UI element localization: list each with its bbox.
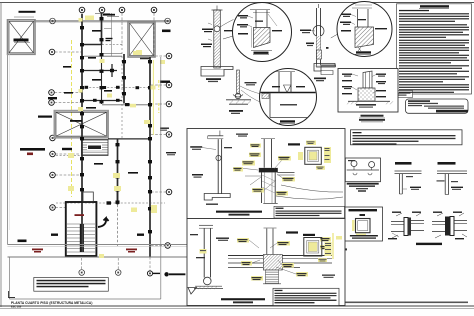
yellow highlight smudges [68, 16, 165, 259]
middle column details [201, 6, 261, 115]
column markers on walls [80, 17, 152, 233]
nota 1 box [351, 130, 463, 145]
proyecto title box [406, 99, 469, 113]
box upper: detalle de columna en vigas existentes [187, 129, 345, 219]
horizontal y155.7 [56, 155, 82, 157]
left grid leaders [55, 52, 83, 208]
planta alzado T [437, 162, 468, 195]
detail circle 2 [331, 2, 392, 57]
corner L mark [9, 291, 16, 298]
column elevation between circles [300, 4, 336, 67]
bottom grid bubbles [79, 270, 85, 276]
left grid bubbles [49, 49, 56, 210]
X-box void top-right [128, 22, 155, 58]
detail base-left of circle D [226, 70, 261, 114]
detail circle 3 (large, lower) [260, 69, 317, 126]
left wall vertical [7, 54, 9, 245]
alero corner step detail [314, 50, 335, 81]
box lower [187, 219, 345, 306]
box1 nota strip [274, 206, 345, 218]
beam splice detail 2 [432, 212, 467, 240]
top grid leader lines [82, 13, 154, 140]
right column: notes, boxes, tables [314, 4, 472, 303]
small interior annotation marks [63, 30, 138, 174]
leader curves to weld box [276, 185, 343, 199]
svg-text:PLANTA CUARTO PISO (ESTRUCTURA: PLANTA CUARTO PISO (ESTRUCTURA METALICA) [11, 301, 93, 305]
horizontal y203 [56, 202, 165, 204]
empalme caption [416, 243, 442, 245]
red beam labels in band [32, 249, 137, 253]
X-box void middle [55, 111, 109, 138]
detail circle 1 [223, 3, 292, 62]
box1 bottom title [216, 211, 262, 216]
wall E (x148.6) [149, 57, 151, 257]
nota box inside box2 bottom-right [273, 288, 339, 305]
detail A-A column elevation [201, 6, 234, 83]
svg-text:ESC 1/50: ESC 1/50 [11, 306, 22, 309]
bottom-right margin text [320, 302, 468, 304]
corridor band [8, 245, 188, 258]
horizontal wall y100 [82, 100, 122, 102]
black bars annotations [18, 116, 145, 243]
wall C (x102) upper [101, 13, 103, 45]
right grid bubbles [165, 53, 172, 248]
wall D (x117.5) lower [117, 139, 119, 205]
beam-column joint inside box2 [228, 228, 332, 284]
PLAN (left) [8, 7, 188, 308]
plan bottom note box [34, 278, 109, 292]
curved arrow right of stair [98, 218, 109, 227]
detalle 4 square (box2) [303, 233, 342, 278]
column elevation inside box1 [190, 131, 232, 205]
grid bubble left-top [50, 18, 56, 24]
weld symbol box [345, 158, 380, 192]
stair box [66, 202, 97, 256]
detalle 4 square (box1) [288, 141, 331, 170]
footing detail box [338, 69, 398, 113]
box2 bottom title [221, 298, 265, 303]
cuadro de columnas box [344, 207, 383, 241]
X-box void top-left [8, 20, 36, 55]
ley mark [340, 248, 347, 250]
yellow grid highlight line [71, 40, 73, 197]
beam splice detail 1 [388, 212, 424, 240]
horizontal wall y44 [82, 44, 102, 46]
planta alzado C [395, 162, 422, 194]
horizontal wall y139 [108, 138, 150, 140]
hatched duct [82, 140, 109, 156]
detalle alero caption [359, 115, 385, 122]
column elevation inside box2 [190, 225, 229, 289]
right grid leaders [151, 56, 166, 246]
wall B (x82) [81, 14, 83, 252]
horizontal dashes y87 [82, 87, 150, 89]
dim ticks above plan [95, 14, 119, 17]
top grid bubbles [79, 7, 157, 13]
notes specifications block [396, 4, 472, 98]
label bar above box1 [19, 11, 36, 13]
grid line top y21 [34, 20, 171, 22]
grid bubble right-top [165, 18, 171, 24]
beam-column joint inside box1 [233, 134, 343, 204]
top-right detail circles [223, 2, 392, 126]
bottom-middle detail boxes [187, 129, 345, 306]
small rect above stair [83, 192, 93, 202]
horizontal wall y70 [82, 70, 117, 72]
